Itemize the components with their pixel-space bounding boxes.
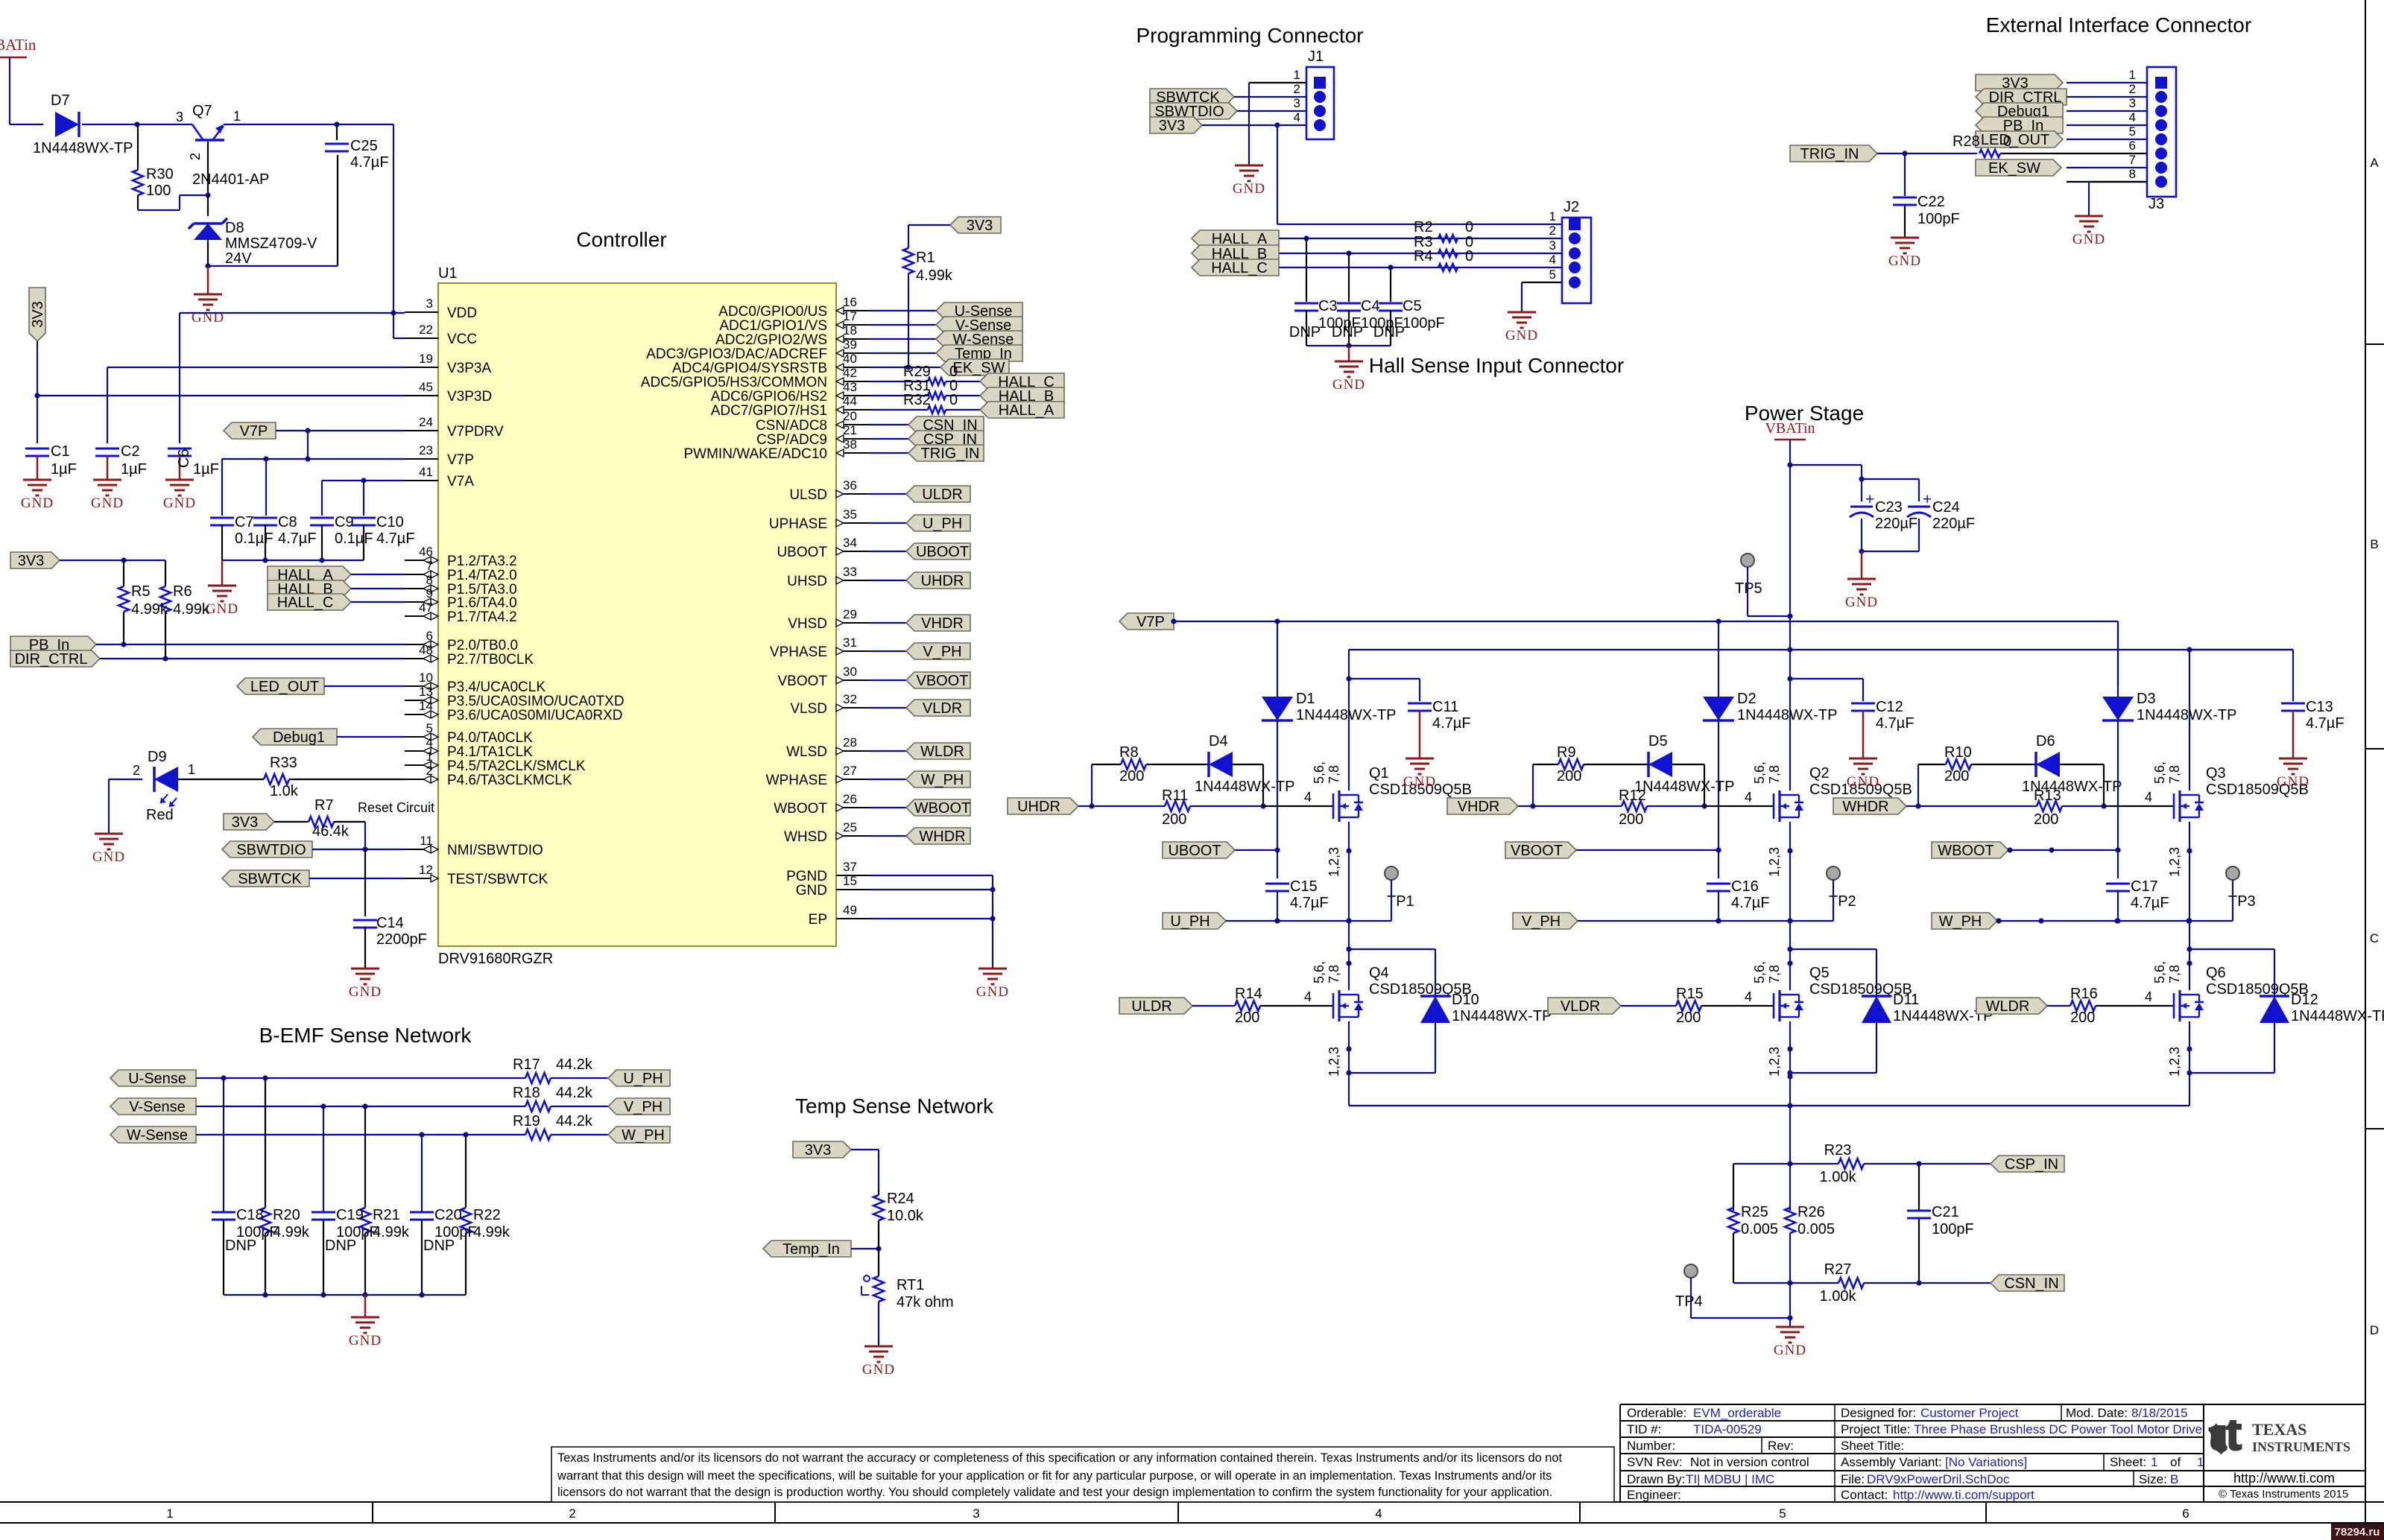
svg-text:2: 2: [2129, 82, 2136, 96]
svg-text:2: 2: [133, 763, 140, 778]
svg-text:WBOOT: WBOOT: [1938, 843, 1994, 859]
svg-text:1N4448WX-TP: 1N4448WX-TP: [1195, 779, 1295, 795]
svg-text:TI| MDBU | IMC: TI| MDBU | IMC: [1686, 1472, 1774, 1486]
svg-text:UBOOT: UBOOT: [1168, 843, 1221, 859]
svg-text:Reset Circuit: Reset Circuit: [358, 800, 434, 815]
svg-text:4.99k: 4.99k: [273, 1224, 310, 1240]
svg-text:3V3: 3V3: [232, 814, 259, 831]
svg-text:6: 6: [2182, 1506, 2189, 1521]
svg-text:31: 31: [843, 636, 857, 650]
svg-text:R23: R23: [1824, 1142, 1852, 1159]
svg-text:HALL_A: HALL_A: [999, 402, 1055, 419]
svg-text:200: 200: [1235, 1010, 1259, 1026]
svg-text:C14: C14: [376, 915, 404, 931]
svg-text:1: 1: [1294, 68, 1300, 82]
svg-text:P4.5/TA2CLK/SMCLK: P4.5/TA2CLK/SMCLK: [447, 758, 586, 774]
svg-text:100pF: 100pF: [1932, 1221, 1974, 1238]
svg-text:TP4: TP4: [1675, 1293, 1703, 1310]
svg-text:200: 200: [1944, 768, 1969, 785]
svg-text:4.7µF: 4.7µF: [1876, 715, 1915, 732]
svg-text:1N4448WX-TP: 1N4448WX-TP: [33, 140, 133, 156]
svg-text:of: of: [2170, 1455, 2181, 1469]
svg-text:GND: GND: [1888, 253, 1921, 269]
svg-text:VCC: VCC: [447, 332, 477, 347]
svg-text:1µF: 1µF: [193, 461, 219, 478]
svg-text:D10: D10: [1452, 992, 1479, 1008]
svg-text:VDD: VDD: [447, 305, 477, 321]
svg-text:7: 7: [2129, 153, 2136, 167]
svg-text:45: 45: [419, 380, 433, 394]
svg-text:23: 23: [419, 443, 433, 457]
svg-text:Orderable:: Orderable:: [1627, 1406, 1686, 1420]
svg-text:GND: GND: [1847, 774, 1879, 790]
svg-text:TID #:: TID #:: [1627, 1422, 1661, 1436]
svg-text:DNP: DNP: [1373, 324, 1405, 340]
svg-text:5,6,: 5,6,: [1752, 961, 1767, 983]
svg-text:R27: R27: [1824, 1261, 1852, 1278]
svg-text:17: 17: [843, 309, 857, 323]
svg-text:D5: D5: [1648, 733, 1668, 750]
svg-text:CSP_IN: CSP_IN: [2005, 1156, 2058, 1173]
svg-text:34: 34: [843, 536, 857, 550]
svg-text:7,8: 7,8: [2167, 965, 2182, 983]
svg-text:3: 3: [176, 110, 183, 124]
svg-text:0: 0: [1465, 248, 1473, 264]
svg-text:C7: C7: [235, 514, 254, 530]
svg-text:3: 3: [1549, 238, 1556, 253]
svg-text:http://www.ti.com/support: http://www.ti.com/support: [1893, 1488, 2034, 1502]
svg-text:ULDR: ULDR: [1131, 998, 1172, 1015]
svg-text:8/18/2015: 8/18/2015: [2131, 1406, 2188, 1420]
svg-text:PGND: PGND: [786, 869, 827, 884]
svg-text:Q5: Q5: [1809, 965, 1830, 981]
svg-text:Q3: Q3: [2206, 765, 2226, 782]
svg-text:Not in version control: Not in version control: [1690, 1455, 1809, 1469]
svg-text:V_PH: V_PH: [1522, 913, 1561, 930]
svg-text:0.005: 0.005: [1798, 1221, 1835, 1238]
svg-text:5: 5: [1549, 267, 1556, 282]
svg-text:200: 200: [2070, 1010, 2095, 1026]
svg-text:1: 1: [188, 762, 195, 777]
svg-text:CSN/ADC8: CSN/ADC8: [756, 418, 827, 434]
svg-text:40: 40: [843, 352, 857, 366]
svg-text:GND: GND: [1845, 595, 1878, 610]
svg-text:DIR_CTRL: DIR_CTRL: [15, 651, 88, 668]
svg-text:GND: GND: [1505, 328, 1538, 343]
svg-text:Project Title:: Project Title:: [1841, 1422, 1911, 1436]
svg-text:R28: R28: [1953, 133, 1980, 150]
svg-text:V_PH: V_PH: [923, 644, 961, 660]
svg-text:C25: C25: [350, 138, 378, 154]
svg-text:VBOOT: VBOOT: [1511, 843, 1563, 859]
svg-text:4.7µF: 4.7µF: [2131, 895, 2169, 911]
svg-text:P2.7/TB0CLK: P2.7/TB0CLK: [447, 652, 534, 668]
svg-text:1: 1: [2151, 1455, 2157, 1469]
svg-text:1,2,3: 1,2,3: [1767, 847, 1782, 877]
svg-text:47k ohm: 47k ohm: [897, 1294, 954, 1311]
svg-text:R32: R32: [903, 392, 931, 408]
svg-text:38: 38: [843, 437, 857, 451]
svg-text:V3P3A: V3P3A: [447, 361, 491, 376]
svg-text:C22: C22: [1917, 194, 1945, 210]
svg-text:4.99k: 4.99k: [173, 601, 210, 618]
svg-text:7,8: 7,8: [1327, 965, 1341, 983]
svg-text:GND: GND: [91, 495, 124, 511]
svg-text:26: 26: [843, 792, 857, 806]
svg-text:3: 3: [2129, 96, 2136, 110]
svg-text:3: 3: [426, 297, 433, 311]
svg-text:2: 2: [569, 1506, 575, 1521]
svg-text:DNP: DNP: [325, 1238, 356, 1254]
svg-text:4.7µF: 4.7µF: [376, 530, 415, 547]
svg-text:GND: GND: [1332, 377, 1365, 393]
svg-text:100pF: 100pF: [1403, 315, 1445, 332]
svg-text:TIDA-00529: TIDA-00529: [1693, 1422, 1762, 1436]
svg-text:VHDR: VHDR: [921, 615, 964, 632]
svg-text:P4.1/TA1CLK: P4.1/TA1CLK: [447, 744, 533, 760]
svg-text:WLDR: WLDR: [1986, 998, 2030, 1015]
svg-text:VLDR: VLDR: [923, 700, 962, 717]
svg-text:Sheet Title:: Sheet Title:: [1841, 1439, 1904, 1453]
svg-text:V7PDRV: V7PDRV: [447, 424, 504, 440]
svg-text:UBOOT: UBOOT: [777, 545, 827, 560]
svg-text:78294.ru: 78294.ru: [2335, 1526, 2380, 1539]
svg-text:32: 32: [843, 692, 857, 706]
svg-text:C17: C17: [2131, 878, 2158, 895]
svg-text:1N4448WX-TP: 1N4448WX-TP: [1737, 707, 1838, 723]
svg-text:44: 44: [843, 394, 857, 408]
svg-text:1,2,3: 1,2,3: [1327, 1047, 1341, 1077]
svg-text:R30: R30: [146, 166, 174, 183]
svg-text:J2: J2: [1563, 199, 1579, 215]
svg-text:U-Sense: U-Sense: [128, 1071, 186, 1087]
svg-text:20: 20: [843, 409, 857, 423]
svg-text:R13: R13: [2034, 788, 2061, 804]
svg-text:VLDR: VLDR: [1561, 998, 1600, 1015]
svg-text:C24: C24: [1932, 499, 1960, 516]
svg-text:Texas Instruments and/or its l: Texas Instruments and/or its licensors d…: [557, 1451, 1562, 1465]
svg-text:D1: D1: [1296, 691, 1315, 707]
svg-text:R4: R4: [1414, 248, 1433, 264]
svg-text:Q1: Q1: [1369, 765, 1389, 782]
svg-text:R14: R14: [1235, 986, 1262, 1002]
svg-text:1N4448WX-TP: 1N4448WX-TP: [1452, 1008, 1552, 1024]
svg-text:Contact:: Contact:: [1841, 1488, 1888, 1502]
svg-text:0.005: 0.005: [1741, 1221, 1778, 1238]
svg-text:4.7µF: 4.7µF: [1432, 715, 1471, 732]
svg-text:WHDR: WHDR: [1842, 799, 1888, 815]
svg-text:R1: R1: [916, 250, 935, 266]
svg-text:U1: U1: [438, 265, 458, 282]
svg-text:WHSD: WHSD: [784, 829, 827, 845]
svg-text:V7P: V7P: [447, 452, 474, 468]
svg-text:41: 41: [419, 465, 433, 479]
svg-text:4.99k: 4.99k: [373, 1224, 410, 1240]
svg-text:4: 4: [1549, 253, 1556, 267]
svg-text:0.1µF: 0.1µF: [235, 530, 274, 547]
svg-text:30: 30: [843, 665, 857, 679]
svg-text:C19: C19: [336, 1207, 364, 1223]
svg-text:ADC5/GPIO5/HS3/COMMON: ADC5/GPIO5/HS3/COMMON: [641, 375, 827, 390]
svg-text:1µF: 1µF: [121, 461, 147, 478]
svg-text:W_PH: W_PH: [921, 772, 964, 788]
svg-text:A: A: [2370, 156, 2379, 170]
svg-text:HALL_C: HALL_C: [1211, 260, 1268, 276]
svg-text:UHDR: UHDR: [921, 573, 964, 589]
svg-text:V3P3D: V3P3D: [447, 389, 492, 405]
svg-text:W_PH: W_PH: [1939, 913, 1982, 930]
svg-text:V7P: V7P: [1136, 614, 1165, 630]
svg-text:P3.4/UCA0CLK: P3.4/UCA0CLK: [447, 679, 546, 695]
svg-text:0.1µF: 0.1µF: [335, 530, 373, 547]
svg-text:C8: C8: [278, 514, 297, 530]
svg-text:R17: R17: [513, 1056, 540, 1073]
svg-text:LED_OUT: LED_OUT: [1981, 132, 2049, 148]
svg-text:1N4448WX-TP: 1N4448WX-TP: [1296, 707, 1397, 723]
svg-text:3: 3: [1294, 96, 1300, 110]
svg-text:C6: C6: [176, 449, 192, 468]
svg-text:TEST/SBWTCK: TEST/SBWTCK: [447, 872, 548, 887]
svg-text:GND: GND: [862, 1362, 895, 1378]
svg-text:200: 200: [1676, 1010, 1701, 1026]
svg-text:49: 49: [843, 903, 857, 917]
svg-text:WBOOT: WBOOT: [774, 801, 827, 817]
svg-text:VLSD: VLSD: [790, 701, 827, 717]
svg-text:GND: GND: [92, 849, 125, 865]
svg-text:5: 5: [1779, 1506, 1786, 1521]
svg-text:DRV9xPowerDril.SchDoc: DRV9xPowerDril.SchDoc: [1867, 1472, 2010, 1486]
svg-text:16: 16: [843, 295, 857, 309]
svg-text:5,6,: 5,6,: [2152, 961, 2167, 983]
svg-text:J3: J3: [2149, 196, 2164, 212]
svg-text:DNP: DNP: [423, 1238, 455, 1254]
svg-text:GND: GND: [163, 495, 196, 511]
svg-text:R15: R15: [1676, 986, 1704, 1002]
svg-text:D7: D7: [51, 92, 70, 109]
svg-text:VBOOT: VBOOT: [916, 673, 968, 689]
svg-text:W_PH: W_PH: [622, 1127, 665, 1144]
svg-text:100pF: 100pF: [1917, 211, 1960, 227]
svg-text:ULDR: ULDR: [922, 487, 962, 503]
svg-text:29: 29: [843, 607, 857, 621]
svg-text:DNP: DNP: [1289, 324, 1321, 340]
svg-text:C16: C16: [1731, 878, 1759, 895]
svg-text:EVM_orderable: EVM_orderable: [1693, 1406, 1781, 1420]
svg-text:1.00k: 1.00k: [1820, 1288, 1857, 1305]
svg-text:TP5: TP5: [1735, 580, 1762, 597]
svg-text:3V3: 3V3: [967, 218, 993, 234]
svg-text:19: 19: [419, 352, 433, 366]
svg-text:GND: GND: [206, 601, 238, 617]
svg-text:43: 43: [843, 380, 857, 394]
svg-text:VPHASE: VPHASE: [770, 644, 827, 660]
svg-text:C12: C12: [1876, 699, 1903, 715]
svg-text:WPHASE: WPHASE: [766, 773, 827, 788]
svg-text:C21: C21: [1932, 1204, 1959, 1220]
svg-text:File:: File:: [1841, 1472, 1865, 1486]
svg-text:4.7µF: 4.7µF: [350, 154, 389, 171]
svg-text:DNP: DNP: [1332, 324, 1363, 340]
svg-text:CSP/ADC9: CSP/ADC9: [756, 432, 827, 448]
svg-text:2200pF: 2200pF: [376, 931, 427, 948]
svg-text:P1.7/TA4.2: P1.7/TA4.2: [447, 609, 517, 625]
svg-text:21: 21: [843, 423, 857, 437]
svg-text:D12: D12: [2291, 992, 2318, 1008]
svg-text:NMI/SBWTDIO: NMI/SBWTDIO: [447, 843, 543, 858]
svg-text:4: 4: [2145, 989, 2152, 1004]
svg-text:15: 15: [843, 874, 857, 888]
svg-text:R12: R12: [1619, 788, 1646, 804]
svg-text:Temp Sense Network: Temp Sense Network: [795, 1094, 994, 1118]
svg-text:J1: J1: [1308, 48, 1324, 65]
svg-text:V_PH: V_PH: [624, 1099, 663, 1115]
svg-text:42: 42: [843, 366, 857, 380]
svg-text:Customer Project: Customer Project: [1920, 1406, 2019, 1420]
svg-text:Mod. Date:: Mod. Date:: [2066, 1406, 2128, 1420]
svg-text:GND: GND: [976, 984, 1009, 1000]
svg-text:44.2k: 44.2k: [556, 1085, 593, 1101]
svg-text:Sheet:: Sheet:: [2110, 1455, 2146, 1469]
svg-text:V-Sense: V-Sense: [129, 1099, 186, 1115]
svg-text:C11: C11: [1432, 699, 1458, 715]
svg-text:C5: C5: [1403, 298, 1422, 314]
svg-text:GND: GND: [349, 1333, 382, 1349]
svg-text:3V3: 3V3: [1159, 118, 1186, 134]
svg-text:Hall Sense Input Connector: Hall Sense Input Connector: [1369, 354, 1624, 377]
svg-text:GND: GND: [796, 883, 827, 899]
svg-text:D11: D11: [1893, 992, 1919, 1008]
svg-text:1.0k: 1.0k: [270, 783, 299, 799]
svg-text:B-EMF Sense Network: B-EMF Sense Network: [259, 1024, 472, 1047]
svg-text:1,2,3: 1,2,3: [2167, 847, 2182, 877]
svg-text:25: 25: [843, 820, 857, 834]
svg-text:B: B: [2170, 1472, 2178, 1486]
svg-text:http://www.ti.com: http://www.ti.com: [2233, 1471, 2335, 1486]
svg-text:D9: D9: [148, 749, 167, 765]
svg-text:UHSD: UHSD: [787, 574, 827, 589]
svg-text:220µF: 220µF: [1875, 516, 1917, 532]
svg-text:D3: D3: [2137, 691, 2156, 707]
svg-text:RT1: RT1: [897, 1277, 924, 1293]
svg-text:R16: R16: [2070, 986, 2098, 1002]
svg-text:P1.4/TA2.0: P1.4/TA2.0: [447, 568, 517, 583]
svg-text:4: 4: [2129, 110, 2136, 124]
svg-text:UPHASE: UPHASE: [769, 516, 827, 532]
svg-text:Red: Red: [146, 807, 174, 823]
svg-text:ULSD: ULSD: [789, 487, 827, 503]
svg-text:DNP: DNP: [225, 1238, 256, 1254]
svg-text:DRV91680RGZR: DRV91680RGZR: [438, 951, 553, 967]
svg-text:W-Sense: W-Sense: [127, 1127, 188, 1144]
svg-text:R22: R22: [473, 1207, 501, 1223]
svg-text:200: 200: [1619, 811, 1643, 828]
svg-text:licensors do not warrant that: licensors do not warrant that the design…: [557, 1486, 1552, 1499]
svg-text:D8: D8: [225, 220, 244, 236]
svg-text:U_PH: U_PH: [1170, 913, 1210, 930]
svg-text:4: 4: [2145, 790, 2152, 805]
svg-text:0: 0: [1465, 219, 1473, 235]
svg-text:1N4448WX-TP: 1N4448WX-TP: [1634, 779, 1735, 795]
svg-text:INSTRUMENTS: INSTRUMENTS: [2252, 1439, 2350, 1454]
svg-text:TRIG_IN: TRIG_IN: [1800, 146, 1859, 162]
svg-text:R9: R9: [1557, 744, 1576, 761]
svg-text:WHDR: WHDR: [919, 828, 965, 845]
svg-text:R6: R6: [173, 583, 192, 600]
svg-text:LED_OUT: LED_OUT: [250, 679, 319, 695]
svg-text:4: 4: [1304, 790, 1312, 805]
svg-text:C23: C23: [1875, 499, 1903, 516]
svg-text:External Interface Connector: External Interface Connector: [1986, 13, 2251, 37]
svg-text:Debug1: Debug1: [273, 729, 325, 746]
svg-text:C3: C3: [1318, 298, 1338, 314]
svg-text:R21: R21: [373, 1207, 400, 1223]
svg-text:R20: R20: [273, 1207, 300, 1223]
svg-text:VHDR: VHDR: [1458, 799, 1500, 815]
svg-text:1: 1: [166, 1506, 173, 1521]
svg-text:Q2: Q2: [1809, 765, 1830, 782]
svg-text:200: 200: [1162, 811, 1186, 828]
svg-text:2: 2: [188, 153, 203, 160]
svg-text:5: 5: [2129, 124, 2136, 139]
svg-text:4: 4: [1745, 790, 1752, 805]
svg-text:R24: R24: [887, 1191, 914, 1207]
svg-text:1: 1: [1549, 209, 1556, 224]
svg-text:Size:: Size:: [2139, 1472, 2167, 1486]
svg-text:[No Variations]: [No Variations]: [1945, 1455, 2027, 1469]
svg-text:37: 37: [843, 860, 857, 874]
svg-text:ADC3/GPIO3/DAC/ADCREF: ADC3/GPIO3/DAC/ADCREF: [646, 346, 827, 362]
svg-text:Programming Connector: Programming Connector: [1136, 24, 1363, 47]
svg-text:ADC0/GPIO0/US: ADC0/GPIO0/US: [718, 304, 827, 320]
svg-text:4.99k: 4.99k: [916, 267, 953, 284]
svg-text:Three Phase Brushless DC Power: Three Phase Brushless DC Power Tool Moto…: [1914, 1422, 2202, 1436]
svg-text:24: 24: [419, 415, 433, 429]
svg-text:1: 1: [2129, 68, 2136, 82]
svg-text:1,2,3: 1,2,3: [1327, 847, 1341, 877]
svg-text:MMSZ4709-V: MMSZ4709-V: [225, 235, 317, 252]
svg-text:220µF: 220µF: [1932, 516, 1975, 532]
svg-text:8: 8: [2129, 167, 2136, 181]
svg-text:P1.6/TA4.0: P1.6/TA4.0: [447, 595, 517, 611]
svg-text:7,8: 7,8: [1767, 765, 1782, 784]
svg-text:P2.0/TB0.0: P2.0/TB0.0: [447, 638, 518, 653]
svg-text:+: +: [1865, 491, 1874, 508]
svg-text:P3.6/UCA0S0MI/UCA0RXD: P3.6/UCA0S0MI/UCA0RXD: [447, 708, 622, 723]
svg-text:10.0k: 10.0k: [887, 1208, 924, 1224]
svg-text:4.99k: 4.99k: [131, 601, 168, 618]
svg-text:44.2k: 44.2k: [556, 1113, 593, 1129]
svg-text:WLDR: WLDR: [920, 744, 964, 760]
svg-text:© Texas Instruments 2015: © Texas Instruments 2015: [2219, 1488, 2348, 1501]
svg-text:GND: GND: [1403, 774, 1436, 790]
svg-text:22: 22: [419, 323, 433, 337]
svg-text:4.7µF: 4.7µF: [1290, 895, 1329, 911]
svg-text:1: 1: [2197, 1455, 2204, 1469]
svg-text:27: 27: [843, 764, 857, 778]
svg-text:SVN Rev:: SVN Rev:: [1627, 1455, 1683, 1469]
svg-text:Controller: Controller: [576, 228, 666, 251]
svg-text:GND: GND: [21, 495, 54, 511]
svg-text:C: C: [2370, 931, 2379, 945]
svg-text:1,2,3: 1,2,3: [1767, 1047, 1782, 1077]
svg-text:SBWTCK: SBWTCK: [238, 871, 302, 887]
svg-text:V7P: V7P: [240, 423, 268, 440]
svg-text:4.7µF: 4.7µF: [1731, 895, 1770, 911]
svg-text:C18: C18: [236, 1207, 264, 1223]
svg-text:4: 4: [1745, 989, 1752, 1004]
svg-text:5,6,: 5,6,: [2152, 761, 2167, 784]
svg-text:Q4: Q4: [1369, 965, 1389, 981]
